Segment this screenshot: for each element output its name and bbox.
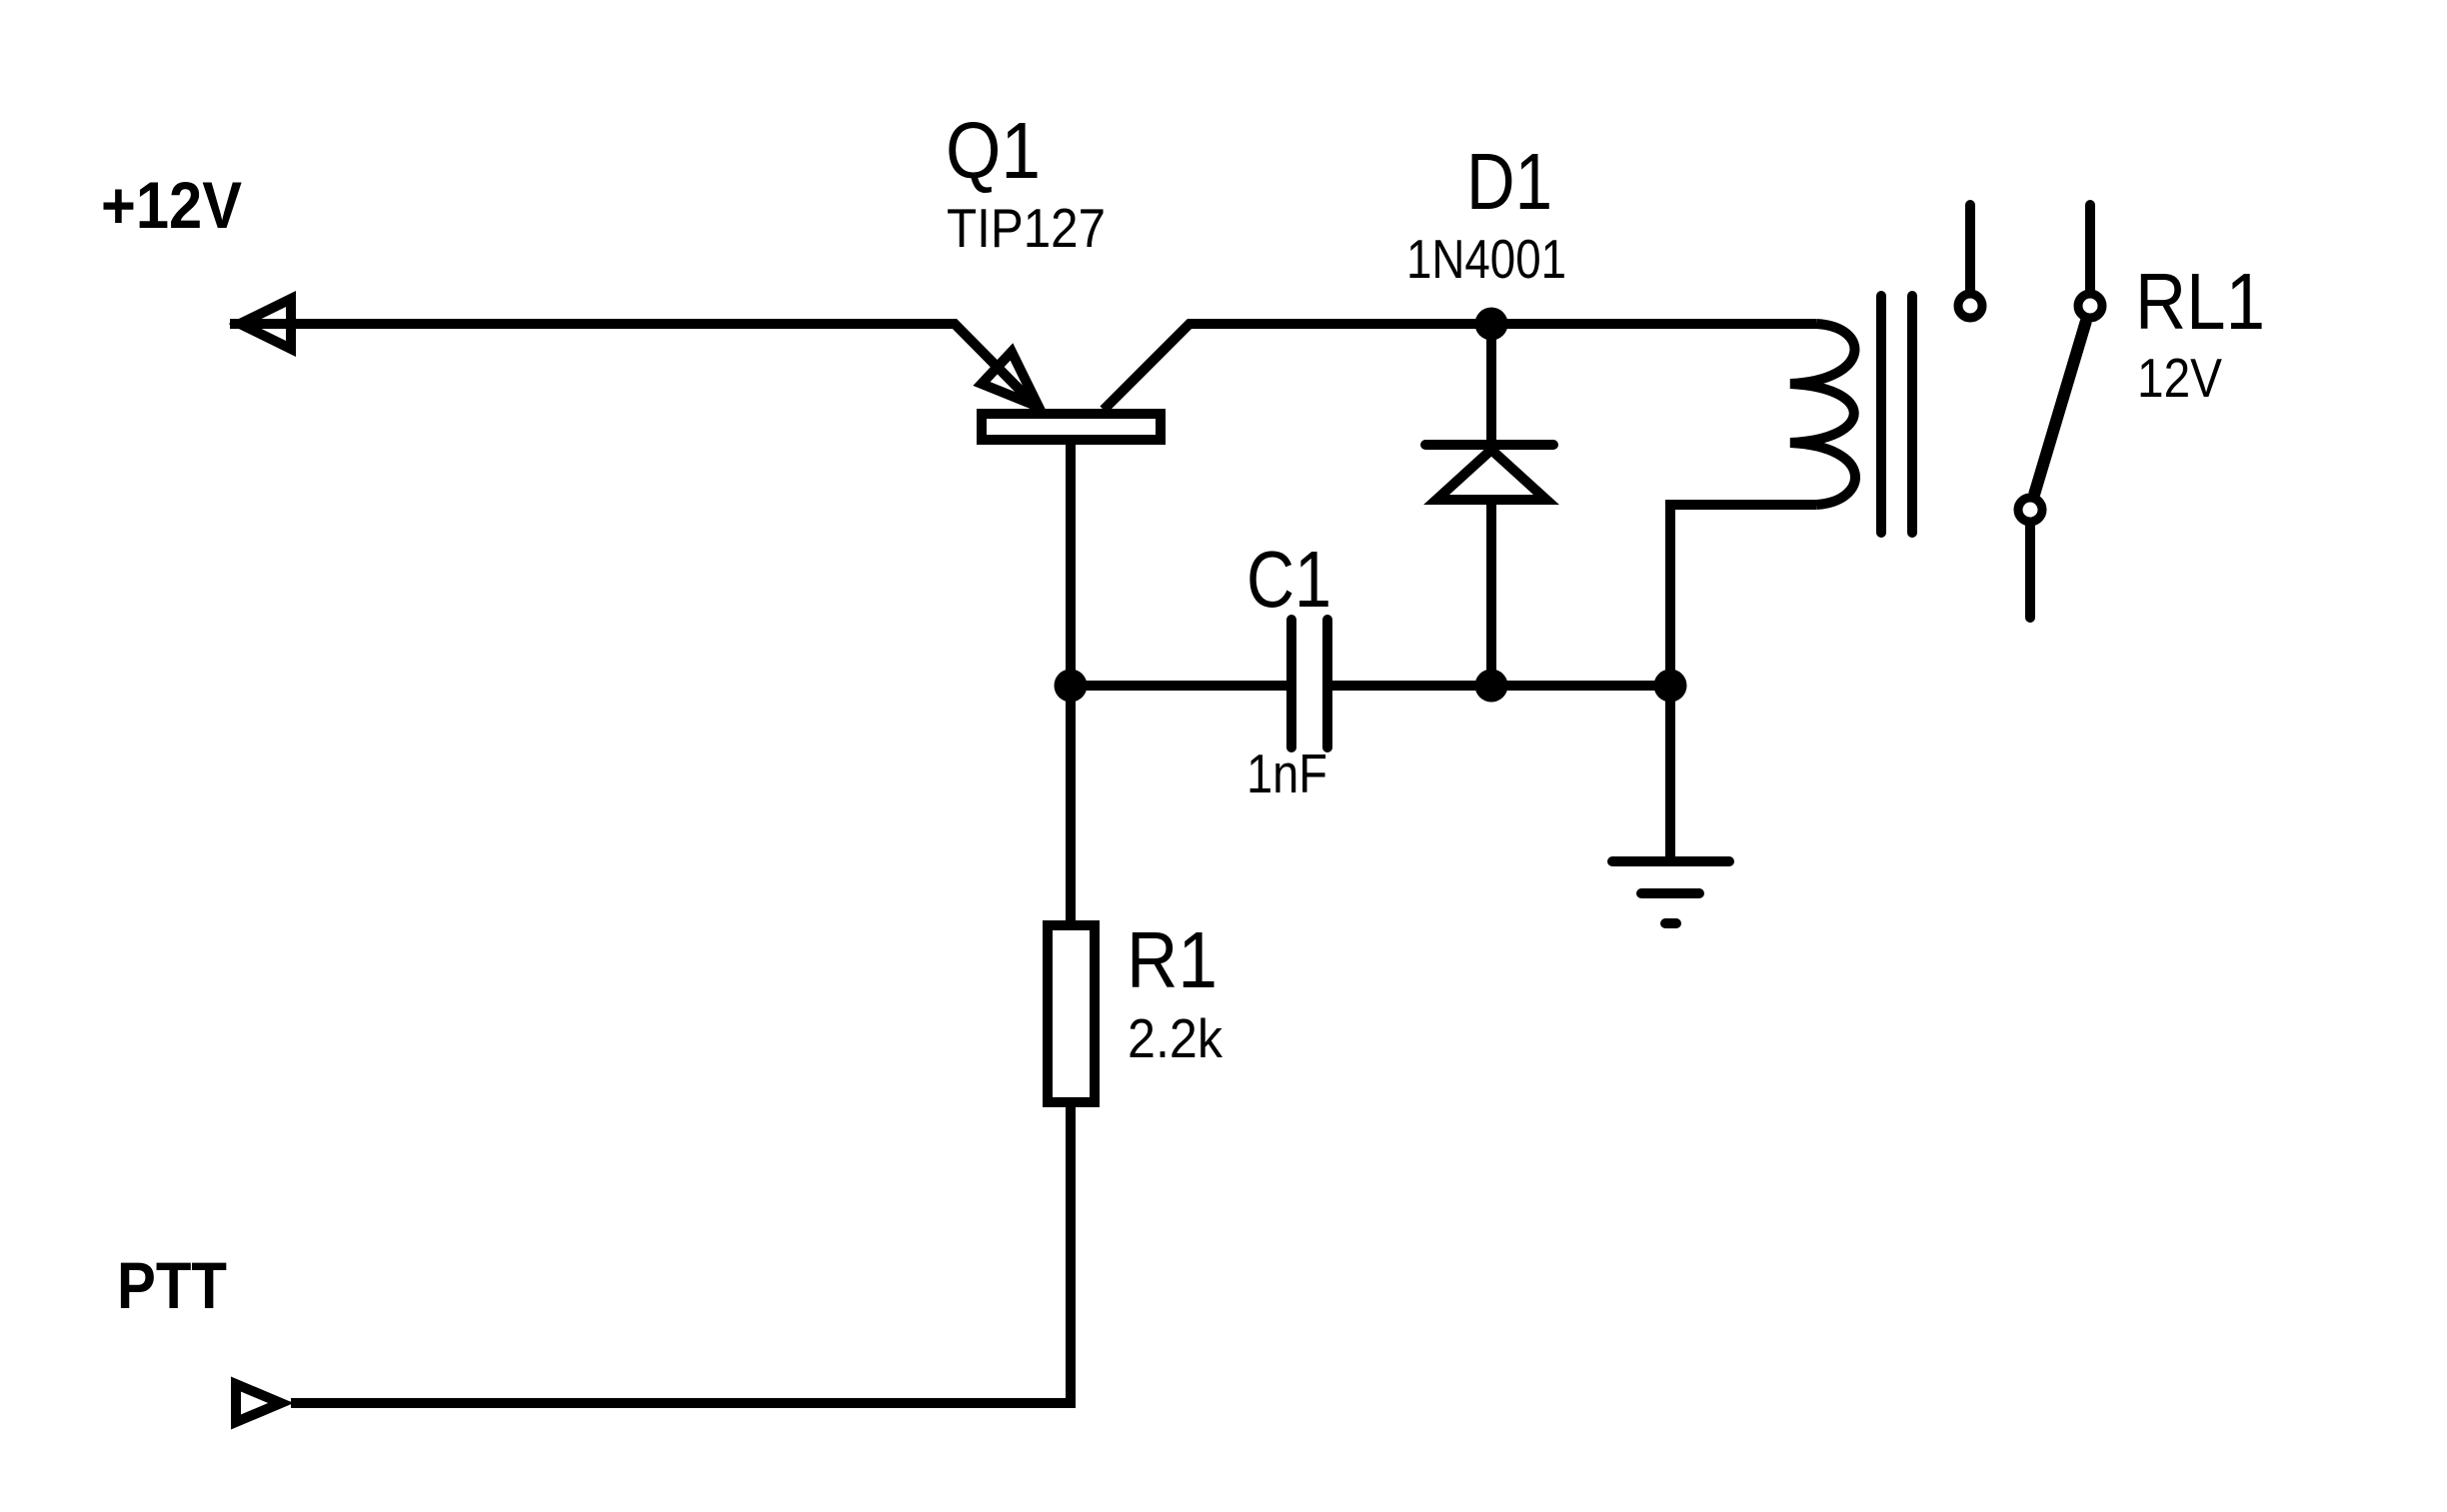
wire D1 node to relay coil xyxy=(1491,319,1816,329)
ground symbol xyxy=(1612,861,1729,923)
svg-text:C1: C1 xyxy=(1246,535,1331,624)
resistor R1 body xyxy=(1048,925,1095,1102)
svg-text:+12V: +12V xyxy=(101,168,242,242)
wire base node to C1 left plate xyxy=(1071,681,1289,691)
svg-text:2.2k: 2.2k xyxy=(1128,1007,1223,1069)
wire R1 bottom to PTT terminal xyxy=(291,1102,1071,1403)
relay RL1 coil xyxy=(1790,324,1855,505)
capacitor C1 right plate xyxy=(1322,620,1332,748)
transistor Q1 emitter arrow xyxy=(982,352,1039,407)
wire C1 right plate to nodes xyxy=(1332,681,1670,691)
svg-text:12V: 12V xyxy=(2137,347,2222,409)
relay switch blade xyxy=(2034,321,2086,495)
relay blade pivot circle xyxy=(2018,498,2042,522)
relay pivot bottom wire xyxy=(2025,526,2035,618)
svg-text:TIP127: TIP127 xyxy=(947,197,1106,259)
transistor Q1 collector lead xyxy=(1104,324,1495,410)
transistor Q1 base lead xyxy=(1066,445,1076,920)
svg-text:R1: R1 xyxy=(1127,915,1218,1004)
relay contact left circle xyxy=(1958,294,1982,318)
svg-text:1nF: 1nF xyxy=(1246,743,1327,804)
relay contact pin left wire xyxy=(1965,205,1975,290)
PTT arrow terminal xyxy=(236,1384,281,1422)
relay contact pin right wire xyxy=(2085,205,2095,290)
junction node D1 anode xyxy=(1475,670,1508,703)
svg-text:PTT: PTT xyxy=(117,1248,227,1322)
svg-text:Q1: Q1 xyxy=(946,106,1041,195)
wire relay return node to ground xyxy=(1665,686,1675,861)
relay contact right circle xyxy=(2078,294,2102,318)
relay core line right xyxy=(1907,296,1917,533)
junction node D1 cathode xyxy=(1475,308,1508,341)
capacitor C1 left plate xyxy=(1286,620,1296,748)
wire relay coil return xyxy=(1670,505,1816,686)
svg-text:D1: D1 xyxy=(1466,137,1552,226)
relay core line left xyxy=(1876,296,1886,533)
junction node Q1 base / C1 xyxy=(1055,670,1088,703)
junction node relay coil return xyxy=(1654,670,1687,703)
svg-text:RL1: RL1 xyxy=(2135,257,2265,346)
diode D1 cathode lead xyxy=(1486,324,1496,445)
svg-text:1N4001: 1N4001 xyxy=(1406,228,1566,290)
diode D1 anode lead xyxy=(1486,500,1496,686)
diode D1 triangle xyxy=(1436,450,1546,500)
transistor Q1 base plate xyxy=(982,414,1161,440)
wire +12V terminal to Q1 emitter xyxy=(230,324,1040,410)
diode D1 cathode bar xyxy=(1425,440,1553,450)
+12V arrow terminal xyxy=(240,299,291,349)
